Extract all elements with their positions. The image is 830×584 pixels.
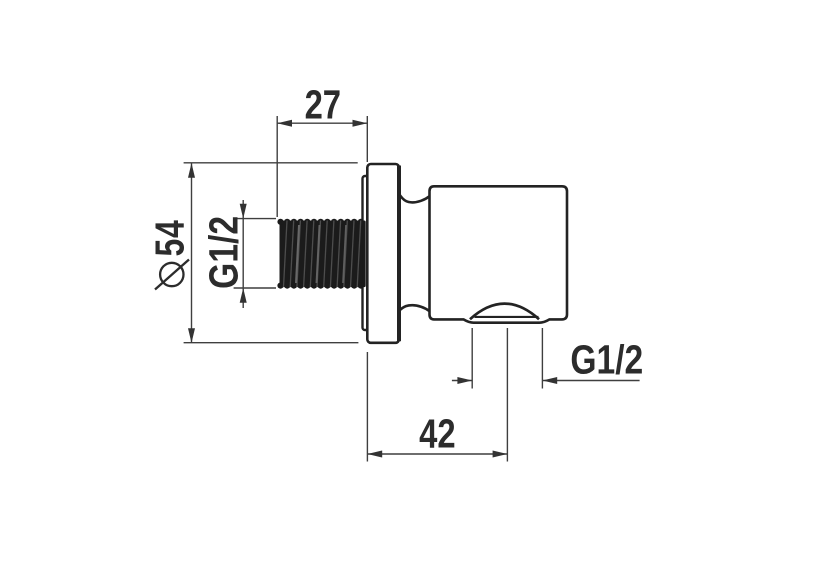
27 dimension: extension line right	[366, 116, 368, 162]
thread G1/2 arrow top (outside pointing down)	[240, 204, 247, 219]
outlet centerline	[506, 328, 508, 462]
thread G1/2 dim line vertical	[242, 200, 244, 308]
dia54 extension line bottom	[184, 342, 359, 344]
dia54 diameter symbol circle	[160, 263, 183, 286]
27 dimension line	[277, 122, 367, 124]
42 arrow right	[493, 451, 508, 458]
dia54 diameter symbol slash	[155, 260, 189, 290]
outlet G1/2 arrow left (pointing right)	[457, 377, 472, 384]
holder body (rounded block) with outlet dip	[430, 186, 568, 322]
thread G1/2 arrow bottom (outside pointing up)	[240, 288, 247, 303]
dia54 extension line top	[184, 162, 358, 164]
svg-text:42: 42	[419, 410, 455, 456]
27 arrow right	[353, 120, 368, 127]
svg-text:G1/2: G1/2	[200, 216, 246, 289]
dia54 arrow bottom	[188, 328, 195, 343]
thread G1/2 male (hatched black)	[277, 219, 364, 289]
outlet G1/2 arrow right (pointing left)	[542, 377, 557, 384]
42 arrow left	[367, 451, 382, 458]
27 arrow left	[277, 120, 292, 127]
27 dimension: extension line left	[276, 116, 278, 217]
flange front face edge (thick)	[397, 166, 401, 342]
42 dim: extension line left	[366, 352, 368, 462]
dia54 arrow top	[188, 163, 195, 178]
wall flange (escutcheon) main plate	[367, 164, 399, 343]
42 dimension line	[367, 453, 507, 455]
outlet G1/2 dim line right segment	[542, 380, 639, 382]
thread crest scallops bottom	[277, 283, 364, 289]
outlet G1/2 dim line left segment	[452, 380, 472, 382]
thread G1/2 dim: extension line bottom	[234, 287, 276, 289]
neck bottom concave profile	[399, 305, 430, 311]
bottom outlet arch (curved recess)	[470, 304, 539, 320]
thread G1/2 dim: extension line top	[234, 218, 276, 220]
thread flank streak lines	[284, 221, 361, 288]
svg-text:27: 27	[305, 81, 341, 127]
outlet G1/2 dim: extension line left	[471, 328, 473, 389]
svg-text:54: 54	[147, 219, 193, 256]
outlet G1/2 dim: extension line right	[541, 328, 543, 389]
wall flange (escutcheon) back lip	[363, 176, 373, 330]
neck top concave profile	[399, 194, 430, 203]
thread crest scallops top	[277, 219, 364, 225]
dia 54 dimension line (vertical)	[191, 163, 193, 343]
svg-text:G1/2: G1/2	[570, 336, 643, 382]
outlet chamfer line	[475, 316, 539, 318]
